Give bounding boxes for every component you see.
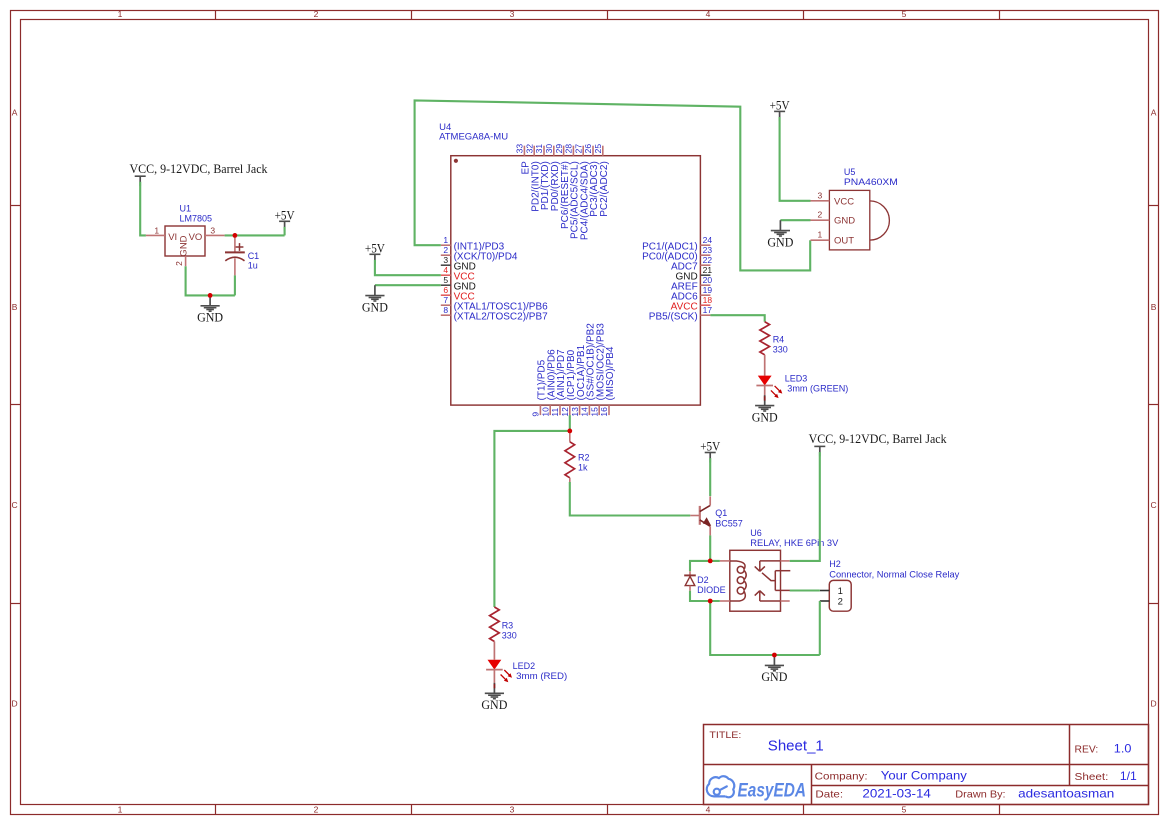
svg-text:R4: R4 (773, 335, 785, 345)
svg-text:2: 2 (818, 210, 823, 220)
svg-text:2: 2 (314, 805, 319, 815)
svg-text:1: 1 (118, 805, 123, 815)
svg-text:VCC: VCC (834, 196, 854, 207)
svg-text:GND: GND (767, 235, 793, 249)
svg-text:Q1: Q1 (715, 508, 727, 518)
svg-text:27: 27 (573, 144, 583, 154)
svg-text:5: 5 (902, 9, 907, 19)
svg-text:VCC, 9-12VDC, Barrel Jack: VCC, 9-12VDC, Barrel Jack (130, 162, 269, 176)
svg-text:D: D (12, 699, 18, 709)
svg-text:29: 29 (554, 144, 564, 154)
svg-text:2: 2 (838, 596, 843, 607)
svg-text:VO: VO (189, 232, 203, 243)
svg-text:(MISO)/PB4: (MISO)/PB4 (605, 346, 616, 400)
svg-text:3mm (GREEN): 3mm (GREEN) (787, 384, 848, 394)
svg-text:15: 15 (589, 407, 599, 417)
svg-text:DIODE: DIODE (697, 585, 726, 595)
svg-text:5: 5 (902, 805, 907, 815)
svg-text:LED2: LED2 (513, 661, 536, 671)
svg-text:24: 24 (703, 235, 713, 245)
svg-text:+5V: +5V (700, 440, 720, 454)
svg-text:3: 3 (510, 805, 515, 815)
svg-text:3: 3 (510, 9, 515, 19)
svg-text:D2: D2 (697, 575, 709, 585)
svg-text:20: 20 (703, 275, 713, 285)
svg-text:26: 26 (583, 144, 593, 154)
svg-text:Date:: Date: (815, 788, 843, 800)
svg-text:GND: GND (362, 300, 388, 314)
svg-text:C1: C1 (248, 251, 260, 261)
svg-text:3mm (RED): 3mm (RED) (516, 671, 567, 681)
svg-text:2: 2 (174, 261, 184, 266)
svg-text:adesantoasman: adesantoasman (1018, 786, 1114, 800)
svg-text:LM7805: LM7805 (180, 213, 213, 223)
svg-text:3: 3 (818, 190, 823, 200)
svg-text:32: 32 (524, 144, 534, 154)
svg-text:RELAY, HKE 6Pin 3V: RELAY, HKE 6Pin 3V (750, 538, 838, 548)
svg-text:PNA460XM: PNA460XM (844, 177, 898, 187)
svg-text:H2: H2 (829, 559, 841, 569)
svg-text:GND: GND (481, 698, 507, 712)
svg-text:4: 4 (706, 805, 711, 815)
svg-text:+5V: +5V (770, 99, 790, 113)
svg-text:6: 6 (443, 285, 448, 295)
svg-text:1u: 1u (248, 260, 258, 270)
svg-text:8: 8 (443, 305, 448, 315)
svg-text:21: 21 (703, 265, 713, 275)
svg-text:4: 4 (706, 9, 711, 19)
svg-text:VI: VI (168, 232, 177, 243)
svg-text:C: C (12, 500, 18, 510)
svg-text:9: 9 (531, 412, 541, 417)
svg-text:16: 16 (599, 407, 609, 417)
svg-text:OUT: OUT (834, 236, 854, 247)
svg-text:GND: GND (179, 235, 190, 256)
svg-text:VCC, 9-12VDC, Barrel Jack: VCC, 9-12VDC, Barrel Jack (809, 432, 948, 446)
svg-text:14: 14 (580, 407, 590, 417)
svg-text:GND: GND (752, 410, 778, 424)
svg-text:1: 1 (818, 230, 823, 240)
svg-text:31: 31 (534, 144, 544, 154)
svg-text:1: 1 (154, 225, 159, 235)
svg-text:1/1: 1/1 (1120, 769, 1137, 783)
svg-text:10: 10 (540, 407, 550, 417)
svg-text:A: A (12, 108, 18, 118)
svg-text:D: D (1151, 699, 1157, 709)
svg-text:23: 23 (703, 245, 713, 255)
svg-text:+5V: +5V (275, 208, 295, 222)
svg-text:Sheet:: Sheet: (1075, 771, 1109, 783)
svg-text:33: 33 (515, 144, 525, 154)
svg-text:13: 13 (570, 407, 580, 417)
svg-text:EasyEDA: EasyEDA (738, 780, 807, 801)
svg-text:2: 2 (314, 9, 319, 19)
svg-text:Your Company: Your Company (881, 769, 967, 783)
svg-text:330: 330 (502, 631, 517, 641)
svg-text:ATMEGA8A-MU: ATMEGA8A-MU (439, 132, 508, 143)
svg-text:Drawn By:: Drawn By: (955, 788, 1005, 800)
svg-text:GND: GND (834, 216, 855, 227)
svg-text:R2: R2 (578, 452, 590, 462)
svg-text:Connector, Normal Close Relay: Connector, Normal Close Relay (829, 569, 960, 579)
svg-text:11: 11 (550, 408, 560, 417)
svg-text:12: 12 (560, 407, 570, 417)
svg-text:(XTAL2/TOSC2)/PB7: (XTAL2/TOSC2)/PB7 (454, 311, 549, 322)
svg-text:22: 22 (703, 255, 713, 265)
svg-text:1: 1 (118, 9, 123, 19)
svg-text:U5: U5 (844, 167, 856, 177)
svg-text:Company:: Company: (815, 771, 868, 783)
svg-text:1: 1 (443, 235, 448, 245)
svg-text:1: 1 (838, 586, 843, 597)
svg-text:7: 7 (443, 295, 448, 305)
svg-text:GND: GND (761, 670, 787, 684)
svg-text:BC557: BC557 (715, 518, 743, 528)
svg-text:U6: U6 (750, 528, 762, 538)
svg-text:TITLE:: TITLE: (709, 730, 741, 741)
svg-text:+5V: +5V (365, 241, 385, 255)
svg-text:R3: R3 (502, 620, 514, 630)
svg-text:GND: GND (197, 311, 223, 325)
svg-text:28: 28 (564, 144, 574, 154)
svg-text:PC2/(ADC2): PC2/(ADC2) (599, 161, 610, 217)
svg-text:2021-03-14: 2021-03-14 (862, 786, 931, 800)
svg-text:3: 3 (210, 225, 215, 235)
svg-text:U1: U1 (180, 204, 192, 214)
svg-text:1.0: 1.0 (1114, 741, 1132, 755)
svg-text:25: 25 (593, 144, 603, 154)
svg-text:18: 18 (703, 295, 713, 305)
svg-text:Sheet_1: Sheet_1 (768, 738, 824, 754)
svg-text:B: B (12, 302, 18, 312)
svg-text:19: 19 (703, 285, 713, 295)
svg-text:PB5/(SCK): PB5/(SCK) (649, 311, 698, 322)
svg-text:REV:: REV: (1075, 743, 1099, 755)
svg-text:17: 17 (703, 305, 713, 315)
svg-text:330: 330 (773, 344, 788, 354)
svg-text:1k: 1k (578, 463, 588, 473)
svg-text:5: 5 (443, 275, 448, 285)
svg-text:LED3: LED3 (785, 373, 808, 383)
svg-text:A: A (1151, 108, 1157, 118)
svg-text:C: C (1151, 500, 1157, 510)
svg-text:3: 3 (443, 255, 448, 265)
svg-text:B: B (1151, 302, 1157, 312)
svg-text:4: 4 (443, 265, 448, 275)
svg-text:30: 30 (544, 144, 554, 154)
svg-text:2: 2 (443, 245, 448, 255)
